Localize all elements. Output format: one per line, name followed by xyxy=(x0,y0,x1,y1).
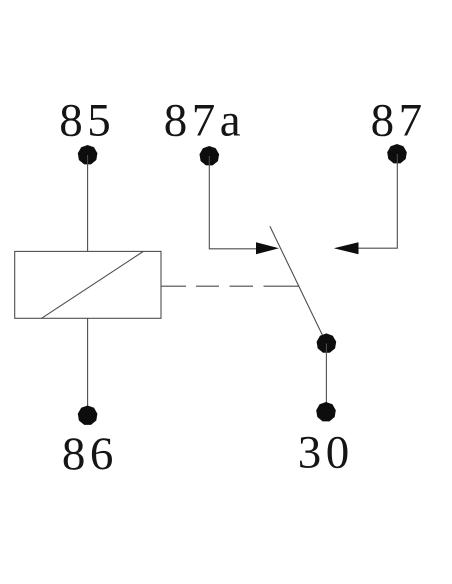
common pivot dot xyxy=(317,333,337,352)
dashed actuation link xyxy=(161,285,300,287)
NO contact arrow (87) xyxy=(334,242,359,254)
terminal 85 dot xyxy=(78,145,98,164)
terminal 87 dot xyxy=(387,144,407,163)
terminal 87a dot xyxy=(200,146,220,165)
terminal 30 dot xyxy=(316,402,336,421)
relay coil K1 xyxy=(15,251,161,318)
coil diagonal xyxy=(42,252,144,319)
wire 87a to NC contact xyxy=(209,156,257,249)
svg-text:30: 30 xyxy=(298,426,354,478)
terminal 86 dot xyxy=(78,406,98,425)
wire 87 to NO contact xyxy=(357,154,397,248)
wire pivot to 30 xyxy=(325,343,327,412)
svg-text:85: 85 xyxy=(59,95,115,147)
wire 85 to coil xyxy=(87,155,89,252)
svg-text:87: 87 xyxy=(371,95,427,147)
svg-text:87a: 87a xyxy=(164,95,245,147)
svg-text:86: 86 xyxy=(62,428,118,480)
switch blade xyxy=(270,226,327,343)
NC contact arrow (87a) xyxy=(256,242,279,254)
wire coil to 86 xyxy=(87,318,89,415)
